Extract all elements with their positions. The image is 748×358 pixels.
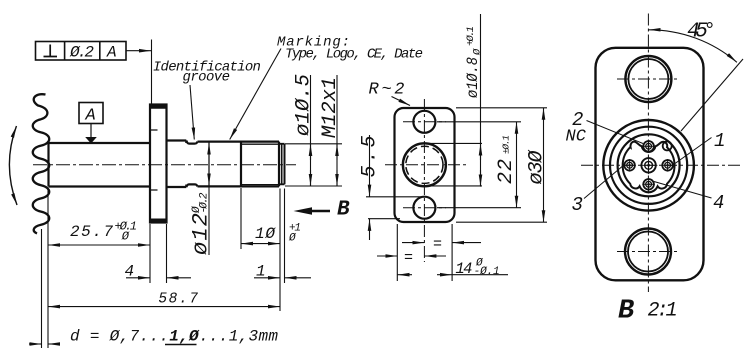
pins bbox=[623, 140, 674, 191]
top mounting hole bbox=[413, 111, 435, 133]
shaft main body bbox=[49, 143, 151, 187]
svg-text:3: 3 bbox=[572, 194, 583, 216]
connector circles bbox=[603, 120, 694, 211]
svg-text:-Ø.2: -Ø.2 bbox=[199, 192, 211, 213]
svg-text:Ø.2: Ø.2 bbox=[69, 44, 94, 62]
leader R~2 bbox=[392, 97, 411, 106]
dimension diameter 30 bbox=[456, 108, 547, 222]
svg-text:ø1Ø.8: ø1Ø.8 bbox=[464, 57, 482, 98]
svg-text:ø3Ø: ø3Ø bbox=[526, 150, 549, 185]
svg-text:±Ø.1: ±Ø.1 bbox=[501, 135, 512, 154]
shaft tip bbox=[279, 142, 285, 187]
svg-text:1: 1 bbox=[714, 130, 725, 152]
svg-text:-Ø.1: -Ø.1 bbox=[474, 266, 500, 278]
svg-text:A: A bbox=[85, 107, 96, 126]
rotation arrow bbox=[9, 126, 17, 205]
dimension 4 bbox=[126, 224, 191, 283]
svg-text:Ø: Ø bbox=[472, 48, 484, 56]
bottom hole bbox=[625, 229, 671, 275]
svg-text:25.7: 25.7 bbox=[70, 223, 113, 241]
dimension 5.5 bbox=[366, 135, 424, 240]
flange bbox=[150, 105, 167, 223]
neck + identification groove + marking section bbox=[167, 141, 242, 188]
bottom mounting hole bbox=[413, 197, 435, 219]
svg-text:5.5: 5.5 bbox=[359, 136, 382, 178]
dimension 58.7 bbox=[48, 306, 280, 308]
svg-text:A: A bbox=[106, 44, 117, 62]
datum A flag bbox=[79, 103, 103, 144]
svg-text:45°: 45° bbox=[687, 21, 716, 44]
svg-text:22: 22 bbox=[495, 159, 518, 184]
svg-text:ø1Ø.5: ø1Ø.5 bbox=[293, 74, 316, 136]
svg-text:B: B bbox=[618, 297, 634, 327]
svg-text:14: 14 bbox=[455, 260, 472, 278]
plate outline bbox=[596, 48, 704, 280]
dimension 22 bbox=[437, 122, 521, 208]
svg-text:Type, Logo, CE, Date: Type, Logo, CE, Date bbox=[285, 47, 423, 63]
svg-text:4: 4 bbox=[713, 192, 724, 214]
svg-text:groove: groove bbox=[183, 70, 231, 86]
shaft centerline bbox=[33, 164, 296, 166]
svg-text:Ø: Ø bbox=[121, 230, 130, 244]
centerlines bbox=[385, 99, 466, 262]
svg-text:NC: NC bbox=[566, 128, 587, 147]
dimension lines diameter 10.5 and M12x1 bbox=[285, 75, 342, 186]
svg-text:d = Ø,7...1,Ø...1,3mm: d = Ø,7...1,Ø...1,3mm bbox=[70, 328, 278, 346]
45 degree dimension bbox=[649, 30, 743, 131]
svg-text:=: = bbox=[433, 236, 442, 253]
key circle bbox=[663, 141, 672, 150]
center thread dashed bbox=[406, 146, 443, 183]
dimension 1 bbox=[254, 189, 311, 284]
svg-text:+Ø.1: +Ø.1 bbox=[465, 26, 477, 46]
flange plate face bbox=[395, 108, 455, 222]
dimension diameter 12 bbox=[208, 143, 210, 256]
leader marking bbox=[230, 49, 281, 140]
top hole bbox=[625, 56, 671, 102]
dimension d wire bbox=[29, 229, 60, 348]
svg-text:58.7: 58.7 bbox=[158, 292, 198, 308]
dimension 25.7 bbox=[48, 188, 150, 348]
bottom equal dims and 14 bbox=[377, 224, 508, 281]
svg-text:2:1: 2:1 bbox=[648, 300, 678, 323]
svg-text:1Ø: 1Ø bbox=[255, 225, 276, 243]
dimension 10 bbox=[241, 188, 280, 311]
pin leaders bbox=[584, 121, 712, 199]
leader identification groove bbox=[190, 85, 194, 140]
svg-text:=: = bbox=[404, 250, 413, 267]
centerlines bbox=[581, 14, 741, 293]
svg-text:R~2: R~2 bbox=[369, 81, 405, 100]
svg-text:4: 4 bbox=[125, 263, 135, 281]
svg-text:ø12: ø12 bbox=[189, 213, 214, 255]
insert outline bbox=[623, 142, 675, 193]
tolerance frame perpendicular 0.2 A bbox=[36, 40, 152, 105]
dimension diameter 10.8 bbox=[420, 14, 482, 187]
view B arrow bbox=[294, 207, 331, 214]
svg-text:M12x1: M12x1 bbox=[319, 77, 342, 138]
center hole solid bbox=[403, 143, 446, 186]
svg-text:1: 1 bbox=[256, 263, 266, 281]
spring wavy line bbox=[33, 94, 50, 233]
svg-text:B: B bbox=[337, 199, 350, 222]
thread section M12x1 bbox=[241, 142, 279, 187]
